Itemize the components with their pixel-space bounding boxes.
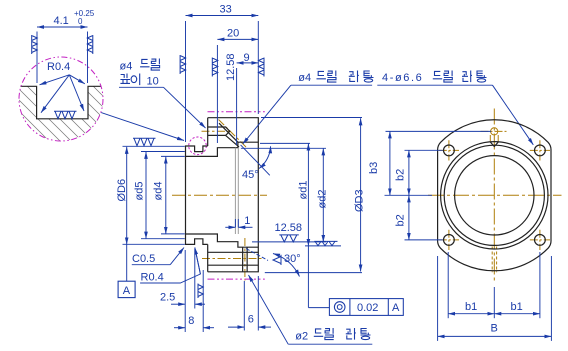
phi2 drill hole walls <box>243 247 248 272</box>
svg-text:ø4: ø4 <box>120 61 133 73</box>
svg-text:45°: 45° <box>242 169 259 181</box>
bore circles <box>441 142 548 249</box>
svg-text:b1: b1 <box>465 301 477 313</box>
dim 6 <box>228 326 244 328</box>
dimension 4.1 +0.25/0 <box>37 27 88 83</box>
svg-text:12.58: 12.58 <box>225 53 237 81</box>
svg-text:1: 1 <box>244 215 250 227</box>
dim b3 <box>389 131 391 195</box>
detail boundary circle <box>19 57 103 141</box>
part outline <box>186 118 259 272</box>
flange top bottom right faces <box>208 118 259 272</box>
svg-text:30°: 30° <box>284 253 301 265</box>
svg-text:9: 9 <box>244 52 250 64</box>
svg-text:ød4: ød4 <box>153 182 165 201</box>
svg-text:6: 6 <box>248 314 254 326</box>
dim D3 <box>360 118 362 271</box>
svg-text:A: A <box>123 285 131 297</box>
30deg angular dim <box>246 249 268 261</box>
svg-text:10: 10 <box>147 76 159 88</box>
phi4 drill hole top <box>208 127 230 135</box>
dim b2 upper <box>408 150 410 195</box>
45deg drill cone seen in front <box>490 142 498 147</box>
svg-text:B: B <box>491 323 498 335</box>
svg-text:ØD6: ØD6 <box>116 179 128 202</box>
svg-text:ø2: ø2 <box>295 331 308 343</box>
nose cylinder with groove <box>186 146 208 244</box>
finish mark near 30deg <box>273 255 281 265</box>
phi2 drill hidden walls <box>491 247 493 273</box>
detail indicator circle on main view <box>189 137 207 155</box>
svg-text:2.5: 2.5 <box>160 292 175 304</box>
dim 20 <box>217 38 258 40</box>
flange centerlines <box>428 109 562 283</box>
svg-text:b1: b1 <box>511 301 523 313</box>
finish mark bottom-left <box>198 284 203 299</box>
svg-text:33: 33 <box>220 4 232 16</box>
finish marks pair near 12.58 bottom <box>279 235 299 242</box>
tolerance frame <box>329 299 403 316</box>
detail hatching <box>8 50 160 142</box>
finish marks on 33/20/9 extensions <box>180 55 186 74</box>
svg-text:20: 20 <box>227 28 239 40</box>
dim B <box>438 335 552 337</box>
45deg angular dim <box>241 145 270 175</box>
transition lines (gray) <box>235 148 238 234</box>
dim 8 <box>174 327 185 329</box>
dim 9 <box>237 62 259 64</box>
svg-text:4.1: 4.1 <box>54 15 69 27</box>
main axis centerline <box>172 120 267 281</box>
dim d2 <box>322 148 324 242</box>
svg-text:ØD3: ØD3 <box>354 189 366 212</box>
top drill end-view <box>491 128 498 135</box>
svg-text:b2: b2 <box>395 169 407 181</box>
svg-text:8: 8 <box>188 315 194 327</box>
detail groove profile <box>21 86 102 119</box>
dim D6 <box>126 147 128 245</box>
dim b2 lower <box>408 195 410 240</box>
svg-text:A: A <box>392 302 400 314</box>
svg-text:0.02: 0.02 <box>357 302 378 314</box>
right view dimensions <box>385 131 552 341</box>
datum A stem <box>126 244 128 281</box>
phi2 drill axis <box>244 238 246 281</box>
svg-text:ød2: ød2 <box>316 190 328 209</box>
dim d1 <box>307 144 309 246</box>
svg-text:0: 0 <box>78 17 83 26</box>
svg-text:ød5: ød5 <box>134 182 146 201</box>
svg-text:b3: b3 <box>368 162 380 174</box>
bolt holes <box>444 145 455 156</box>
45deg drill walls <box>219 123 239 147</box>
svg-text:ø4: ø4 <box>298 72 311 84</box>
finish mark in groove floor <box>54 111 77 119</box>
flange outline <box>438 120 551 271</box>
svg-text:R0.4: R0.4 <box>141 272 164 284</box>
45deg drill axis <box>219 120 247 148</box>
svg-text:4-ø6.6: 4-ø6.6 <box>382 72 423 84</box>
svg-text:b2: b2 <box>395 214 407 226</box>
svg-text:C0.5: C0.5 <box>132 253 155 265</box>
svg-text:12.58: 12.58 <box>275 222 303 234</box>
phi6.6 bolt hole bottom (section) <box>208 252 259 265</box>
dim 33 <box>186 15 259 17</box>
finish mark on D6 extension <box>133 138 156 146</box>
dim 1 <box>225 226 235 228</box>
dim 2.5 <box>171 303 185 305</box>
datum A symbol <box>118 281 135 297</box>
flange left face <box>207 118 209 272</box>
bolt hole centerline bottom <box>202 258 263 260</box>
dim b1 pair <box>448 313 494 315</box>
dim d4 <box>165 157 167 234</box>
bore walls <box>186 142 259 156</box>
dim d5 <box>145 152 147 239</box>
phantom lines (magenta) <box>208 111 265 113</box>
finish marks on 4.1 extension lines <box>32 35 38 54</box>
drill centerline phi4 top <box>202 130 232 132</box>
svg-text:ød1: ød1 <box>298 181 310 200</box>
svg-text:R0.4: R0.4 <box>47 61 70 73</box>
leader from detail circle to main-view groove <box>101 113 184 141</box>
